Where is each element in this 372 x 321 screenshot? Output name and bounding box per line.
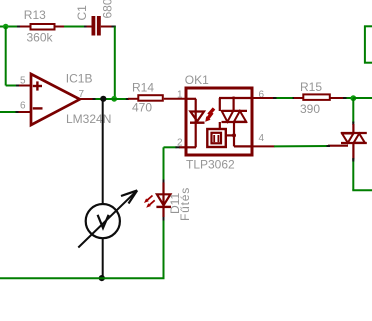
wire corner join after C1 (112, 26, 116, 28)
wire to op-amp pin 5 (6, 85, 17, 87)
wire join (327, 145, 331, 147)
opto pin 2 stub (179, 146, 187, 148)
wire join (16, 111, 20, 113)
svg-text:LM324N: LM324N (66, 112, 111, 126)
svg-text:5: 5 (20, 75, 26, 86)
svg-text:4: 4 (259, 133, 265, 144)
wire black vertical below meter (102, 239, 104, 278)
wire vertical to D11 (163, 220, 165, 278)
junction bottom node (99, 275, 105, 281)
wire join (352, 122, 354, 126)
svg-text:360k: 360k (27, 31, 54, 45)
capacitor C1 (75, 0, 115, 36)
wire after R15 (344, 97, 353, 99)
wire join (126, 98, 129, 100)
svg-text:R15: R15 (300, 80, 322, 94)
op-amp IC1B (19, 72, 112, 127)
junction R15 node (350, 95, 356, 101)
wire join (16, 85, 20, 87)
wire down to triac (352, 98, 354, 124)
wire to right edge (353, 97, 372, 99)
wire join (352, 158, 354, 162)
svg-text:R13: R13 (24, 8, 46, 22)
triac D12 (328, 124, 367, 160)
svg-text:680: 680 (101, 0, 115, 19)
wire pin6 net (274, 97, 295, 99)
svg-text:R14: R14 (132, 80, 154, 94)
resistor R14 (128, 80, 187, 114)
opto internal LED (187, 99, 205, 148)
junction feedback node (111, 96, 117, 102)
svg-text:390: 390 (300, 102, 320, 116)
wire bottom horizontal net (0, 277, 165, 279)
wire join (163, 180, 165, 184)
svg-text:C1: C1 (75, 5, 89, 21)
wire join (273, 97, 277, 99)
opto pin 4 stub (252, 145, 275, 147)
opto lightning arrow (205, 109, 214, 122)
wire black vertical to meter (102, 99, 104, 204)
svg-text:Fűtés: Fűtés (178, 187, 192, 221)
junction top-left (3, 24, 9, 30)
wire join (84, 26, 88, 28)
wire pin2 net (164, 146, 177, 148)
LED D11 (144, 183, 192, 222)
junction meter node (100, 96, 106, 102)
wire bottom right to edge (352, 189, 372, 191)
wire join (293, 97, 297, 99)
opto zero-cross box (207, 129, 236, 147)
resistor R13 (20, 8, 65, 44)
wire top-left horizontal net (0, 26, 18, 28)
wire join (163, 217, 165, 221)
frame top-right (364, 26, 372, 64)
wire feedback vertical (114, 27, 116, 98)
wire pin4 to gate (274, 145, 329, 147)
resistor R15 (294, 80, 344, 116)
svg-text:1: 1 (177, 89, 183, 100)
wire below triac (352, 159, 354, 190)
wire join (93, 98, 96, 100)
svg-text:TLP3062: TLP3062 (186, 158, 235, 172)
voltmeter (78, 190, 137, 247)
svg-text:470: 470 (132, 101, 152, 115)
wire to op-amp pin 6 (0, 111, 16, 113)
wire vertical left (5, 27, 7, 86)
wire join (343, 97, 347, 99)
optocoupler OK1 (177, 73, 265, 171)
svg-text:7: 7 (79, 89, 85, 100)
svg-text:6: 6 (20, 101, 26, 112)
svg-text:OK1: OK1 (185, 73, 209, 87)
opto pin 6 stub (252, 97, 275, 99)
wire output net (93, 98, 128, 100)
wire join (176, 146, 180, 148)
wire join (17, 26, 21, 28)
svg-text:IC1B: IC1B (66, 72, 93, 86)
opto internal triac (219, 97, 252, 147)
wire between R13 and C1 (64, 26, 86, 28)
wire vertical above D11 (163, 147, 165, 180)
